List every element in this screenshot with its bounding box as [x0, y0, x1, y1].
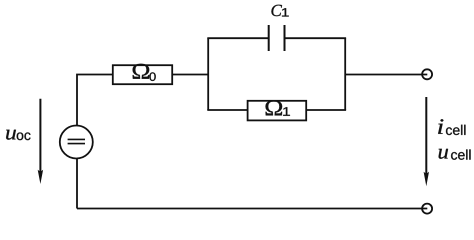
wire left vertical below source — [76, 158, 78, 208]
terminal bottom — [422, 204, 432, 214]
label u_cell — [439, 149, 471, 160]
wire bottom — [77, 208, 427, 210]
label C1 — [271, 5, 288, 17]
wire top-left corner to Ω0 — [77, 75, 113, 126]
resistor Ω0 — [113, 64, 172, 84]
wire resistor branch left — [207, 109, 247, 111]
wire RC block right vertical — [344, 38, 346, 110]
wire capacitor branch left — [207, 37, 268, 39]
voltage source u_oc — [60, 126, 93, 159]
resistor Ω1 — [248, 101, 307, 121]
arrow i_cell u_cell — [424, 97, 429, 186]
wire Ω0 to RC block — [172, 74, 208, 76]
wire RC block to top terminal — [345, 74, 427, 76]
label i_cell — [438, 119, 465, 135]
arrow u_oc — [38, 99, 43, 184]
wire resistor branch right — [306, 109, 346, 111]
wire capacitor branch right — [285, 37, 347, 39]
wire RC block left vertical — [207, 38, 209, 110]
capacitor C1 — [269, 25, 285, 51]
label u_oc — [6, 130, 30, 140]
terminal top — [422, 69, 432, 79]
